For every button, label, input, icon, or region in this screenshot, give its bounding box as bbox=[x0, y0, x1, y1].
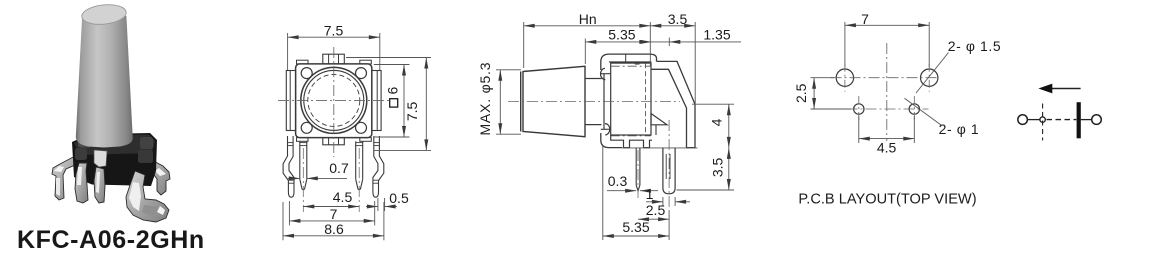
svg-text:KFC-A06-2GHn: KFC-A06-2GHn bbox=[17, 226, 205, 253]
svg-text:0.3: 0.3 bbox=[608, 173, 628, 189]
svg-text:7.5: 7.5 bbox=[404, 101, 420, 121]
svg-text:P.C.B LAYOUT(TOP VIEW): P.C.B LAYOUT(TOP VIEW) bbox=[798, 192, 976, 208]
svg-text:Hn: Hn bbox=[579, 11, 597, 27]
svg-text:5.35: 5.35 bbox=[608, 27, 635, 43]
svg-text:4.5: 4.5 bbox=[333, 189, 353, 205]
svg-text:7: 7 bbox=[330, 206, 338, 222]
svg-text:0.5: 0.5 bbox=[389, 190, 409, 206]
svg-text:1.35: 1.35 bbox=[703, 27, 730, 43]
svg-text:4.5: 4.5 bbox=[877, 140, 897, 156]
svg-text:2- φ 1.5: 2- φ 1.5 bbox=[948, 38, 1002, 54]
svg-text:8.6: 8.6 bbox=[324, 221, 344, 237]
svg-text:2.5: 2.5 bbox=[793, 83, 809, 103]
svg-text:1: 1 bbox=[646, 186, 654, 202]
svg-text:2.5: 2.5 bbox=[646, 202, 666, 218]
svg-text:MAX. φ5.3: MAX. φ5.3 bbox=[477, 62, 493, 136]
svg-text:3.5: 3.5 bbox=[710, 157, 726, 177]
svg-text:7.5: 7.5 bbox=[324, 23, 344, 39]
svg-text:3.5: 3.5 bbox=[668, 11, 688, 27]
svg-text:6: 6 bbox=[385, 86, 401, 94]
svg-text:7: 7 bbox=[861, 11, 869, 27]
svg-text:0.7: 0.7 bbox=[329, 160, 349, 176]
svg-text:4: 4 bbox=[709, 118, 725, 126]
svg-text:5.35: 5.35 bbox=[622, 219, 649, 235]
svg-text:2- φ 1: 2- φ 1 bbox=[939, 121, 980, 137]
